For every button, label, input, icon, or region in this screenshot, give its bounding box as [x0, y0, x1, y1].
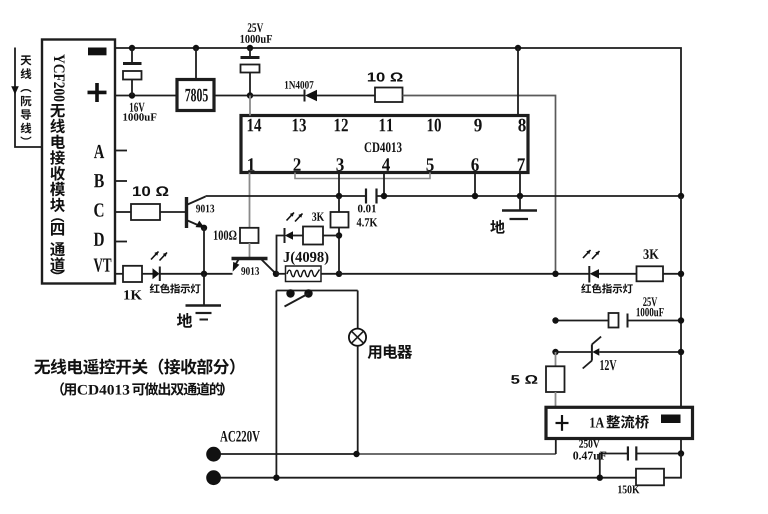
- capacitor C4 25V 1000uF: [609, 313, 682, 328]
- resistor R6 3K box: [303, 227, 323, 245]
- node mid rail right: [678, 193, 684, 199]
- wire R4 to Q2 base: [249, 243, 251, 257]
- node coil left (Q2 collector): [273, 271, 279, 277]
- terminal AC L: [206, 447, 221, 462]
- label R6 3K: [312, 212, 324, 220]
- wire ground top rail: [115, 48, 681, 196]
- IC top pin numbers 14..8: [248, 119, 526, 132]
- IC bottom pin numbers 1..7: [248, 158, 525, 171]
- resistor R3 1K box: [123, 266, 142, 282]
- node LED2 tap: [336, 232, 342, 238]
- wire VT to R3: [115, 273, 123, 275]
- module pin D label: [94, 233, 104, 246]
- label 7805: [185, 89, 207, 102]
- wire R8 to bridge: [555, 392, 557, 407]
- bridge minus mark: [661, 415, 681, 424]
- capacitor C5 0.47uF: [628, 446, 681, 460]
- resistor R9 150K box: [636, 469, 664, 486]
- diode D1 1N4007: [305, 90, 376, 102]
- label R1 10 Ω: [368, 72, 403, 81]
- node C4 right: [678, 317, 684, 323]
- capacitor C1 16V 1000uF: [123, 48, 142, 96]
- wire pin8 up: [517, 48, 519, 116]
- module pin minus (black bar): [88, 48, 107, 56]
- wire R6 to tap: [323, 235, 339, 237]
- wire mid rail left of C3: [206, 195, 367, 197]
- node rail-C1: [129, 45, 135, 51]
- wire bridge right pin: [680, 439, 682, 454]
- module YCF200 receiver box: [42, 40, 115, 284]
- module pin VT label: [94, 259, 112, 272]
- node C2 bottom: [247, 92, 253, 98]
- label 1N4007: [285, 81, 314, 89]
- label Q2 9013: [241, 267, 259, 275]
- node zener row left: [552, 349, 558, 355]
- wire pin14 up: [249, 96, 251, 116]
- wire AC bottom run: [221, 477, 636, 479]
- resistor R8 5Ω box: [546, 366, 565, 392]
- wire R7 to rail: [663, 273, 681, 275]
- wire C2 to D1: [250, 95, 304, 97]
- LED LED3 red indicator: [589, 266, 636, 283]
- node Q1 emitter: [201, 225, 207, 231]
- LED3 rays: [583, 250, 600, 259]
- label R2 10 Ω: [133, 186, 168, 196]
- label R5 4.7K: [357, 218, 378, 226]
- wire pins2-5 bracket: [295, 173, 430, 179]
- wire pin3 down: [338, 173, 340, 197]
- wire rail to R8: [555, 352, 557, 366]
- relay contact terminal left: [286, 289, 294, 297]
- node R7 right: [678, 271, 684, 277]
- label C3 0.01: [358, 205, 376, 213]
- node pin6: [472, 193, 478, 199]
- wire C5 left leg: [600, 454, 627, 478]
- wire contact right down: [357, 291, 359, 330]
- LED LED2: [285, 228, 304, 243]
- ground symbol left: [186, 274, 222, 320]
- relay contact arm: [285, 294, 309, 307]
- relay coil J(4098) box: [286, 266, 322, 282]
- resistor R4 100Ω box: [240, 228, 259, 243]
- node contact-AC junction: [273, 475, 279, 481]
- module pin plus: [88, 83, 107, 102]
- module pin B stub: [115, 180, 127, 182]
- label 红色指示灯 (right): [581, 284, 633, 294]
- wire contact left down: [275, 291, 277, 478]
- module label 无线电接收模块（四通道）: [50, 104, 65, 274]
- caption 无线电遥控开关（接收部分）: [34, 359, 234, 375]
- bridge plus mark: [556, 415, 569, 431]
- wire Q1 emitter down: [203, 228, 205, 274]
- wire R2 to Q1 base: [160, 211, 186, 213]
- label CD4013: [365, 142, 402, 152]
- wire pin1 down to R4: [249, 173, 251, 228]
- wire 7805 to C2: [214, 95, 250, 97]
- wire right rail: [680, 196, 682, 407]
- wire AC top run: [221, 453, 556, 455]
- ground symbol right: [502, 196, 537, 219]
- label 12V: [600, 360, 616, 370]
- label 地 (right ground): [490, 220, 504, 234]
- module pin C label: [94, 203, 103, 216]
- bridge rectifier 1A box: [546, 407, 693, 438]
- resistor R5 4.7K body: [331, 196, 349, 274]
- node zener row right: [678, 349, 684, 355]
- relay contact terminal right: [304, 289, 312, 297]
- node C4 left: [552, 317, 558, 323]
- wire R9 right to rail: [664, 454, 681, 478]
- antenna arrowhead: [11, 86, 19, 94]
- node rail-7805: [193, 45, 199, 51]
- wire pin7 down: [519, 173, 521, 197]
- wire coil left: [276, 273, 286, 275]
- lamp load symbol: [349, 329, 366, 346]
- wire +V rail from module: [115, 95, 177, 97]
- label 0.47uF: [573, 452, 606, 460]
- label R9 150K: [618, 485, 639, 493]
- resistor R7 3K box: [637, 266, 664, 281]
- node rail-C2: [247, 45, 253, 51]
- wire 7805 top pin: [195, 48, 197, 80]
- label R7 3K: [643, 249, 658, 259]
- node C1 bottom: [129, 92, 135, 98]
- label C4 1000uF: [637, 308, 664, 317]
- label C1 1000uF: [123, 113, 156, 120]
- module pin B label: [94, 174, 104, 187]
- terminal AC N: [206, 470, 221, 485]
- node coil right: [336, 271, 342, 277]
- antenna lead wire: [15, 48, 42, 148]
- label R4 100Ω: [214, 230, 237, 239]
- node C5 right: [678, 450, 684, 456]
- wire pin4 down: [383, 173, 385, 197]
- LED LED1 red indicator: [142, 267, 233, 282]
- label C1 16V: [130, 103, 145, 112]
- relay contact bar: [276, 290, 357, 292]
- node lamp-AC junction: [353, 451, 359, 457]
- label 1A整流桥: [590, 415, 649, 429]
- label C4 25V: [643, 297, 657, 306]
- node emitter-ground junction: [201, 271, 207, 277]
- wire zener left: [556, 351, 592, 353]
- wire coil node to right drop: [339, 273, 589, 275]
- capacitor C2 25V 1000uF: [241, 48, 260, 96]
- label J(4098): [284, 251, 329, 265]
- transistor Q2 9013: [232, 259, 276, 274]
- node pin7: [517, 193, 523, 199]
- wire mid rail right of C3: [377, 195, 682, 197]
- module label YCF200 (rotated): [54, 54, 65, 101]
- LED2 rays: [287, 213, 303, 222]
- wire C4 left: [556, 320, 609, 322]
- capacitor C3 0.01: [366, 189, 377, 204]
- caption （用CD4013可做出双通道的）: [60, 382, 224, 395]
- label R3 1K: [124, 290, 142, 299]
- node C5 bottom: [597, 475, 603, 481]
- label 天线（阮导线）: [20, 55, 31, 139]
- IC U1 CD4013 box: [241, 116, 528, 173]
- wire LED2 branch: [277, 236, 285, 274]
- wire pin6 down: [474, 173, 476, 197]
- label 红色指示灯 (left): [150, 284, 201, 294]
- label 地 (left ground): [177, 313, 192, 328]
- label 250V: [579, 440, 600, 448]
- wire coil right: [321, 273, 339, 275]
- node rail-pin8: [515, 45, 521, 51]
- node pin4: [381, 193, 387, 199]
- wire R1 to right drop: [403, 96, 556, 274]
- module pin A stub: [115, 150, 127, 152]
- resistor R1 10Ω box: [375, 88, 403, 103]
- regulator U2 7805 box: [177, 80, 214, 111]
- label R8 5 Ω: [511, 375, 537, 384]
- node pin3: [336, 193, 342, 199]
- wire lamp down: [357, 346, 359, 454]
- zener diode DW 12V: [583, 337, 681, 369]
- module pin D stub: [115, 241, 127, 243]
- transistor Q1 9013: [187, 197, 206, 229]
- label AC220V: [220, 431, 260, 442]
- wire C pin to R2: [115, 211, 131, 213]
- module pin A label: [94, 145, 104, 158]
- label C2 1000uF: [241, 35, 273, 43]
- wire bridge left pin: [555, 439, 557, 455]
- label Q1 9013: [196, 205, 214, 213]
- LED1 rays: [151, 252, 167, 261]
- label C2 25V: [248, 23, 264, 32]
- node LED3 row left: [552, 271, 558, 277]
- resistor R2 10Ω box: [131, 204, 160, 220]
- label 用电器: [368, 344, 413, 359]
